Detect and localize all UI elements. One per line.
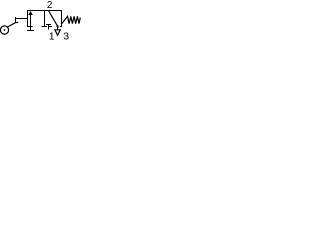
blocked port 1 line with T end: [48, 24, 50, 30]
tappet plate: [15, 17, 17, 23]
bottom edge segment b: [41, 26, 47, 28]
valve body right edge: [61, 11, 63, 27]
lever: [7, 22, 18, 27]
svg-text:2: 2: [47, 0, 53, 11]
svg-text:1: 1: [49, 31, 55, 43]
port stub below left square: [30, 27, 32, 31]
bottom edge segment d: [60, 26, 62, 28]
exhaust triangle: [55, 30, 60, 36]
diagonal flow 2->3 (right square): [49, 11, 59, 28]
arrow shaft (flow 1->2, left square): [30, 14, 32, 27]
roller circle: [0, 26, 8, 34]
crossbar below left square: [27, 30, 34, 32]
diagonal arrow head: [56, 25, 59, 28]
tappet rod: [16, 18, 28, 20]
svg-text:3: 3: [63, 31, 69, 43]
arrow head: [28, 11, 33, 15]
divider: [44, 11, 46, 27]
port 3 stub: [57, 27, 59, 30]
blocked port T crossbar: [46, 24, 51, 26]
valve body top: [27, 10, 62, 12]
bottom edge segment c: [49, 26, 52, 28]
spring: [62, 16, 80, 23]
bottom edge segment a: [27, 26, 32, 28]
roller center dot: [4, 29, 6, 31]
valve body left edge: [27, 11, 29, 27]
